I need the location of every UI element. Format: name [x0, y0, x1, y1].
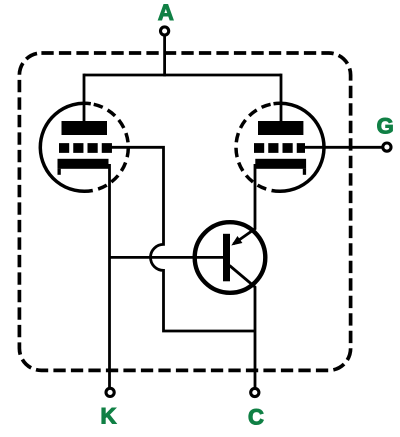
svg-text:G: G [377, 114, 394, 139]
transistor Q1 body circle [195, 222, 266, 293]
tube V1 grid [59, 143, 112, 153]
svg-text:K: K [101, 404, 117, 429]
wire A lead [163, 35, 166, 76]
wire anode bus [84, 74, 281, 77]
tube V2 envelope solid arc [272, 103, 324, 191]
transistor Q1 base bar [223, 234, 230, 281]
wire left plate lead [83, 74, 86, 123]
svg-text:A: A [158, 0, 174, 25]
tube V1 envelope solid arc [40, 103, 92, 191]
tube V1 envelope dashed arc [91, 104, 129, 191]
wire cathode1 to K [108, 164, 111, 388]
svg-text:C: C [248, 404, 264, 429]
wire grid1 net with hop [108, 147, 255, 331]
transistor Q1 emitter arrow [231, 236, 242, 246]
tube V1 cathode [58, 159, 109, 169]
tube V2 right section [236, 103, 324, 191]
tube V2 envelope dashed arc [236, 104, 274, 191]
wire right plate lead [280, 74, 283, 123]
tube V1 anode plate [62, 121, 108, 135]
wire cathode2 to emitter [234, 164, 256, 244]
terminal C [251, 388, 259, 396]
tube V2 anode plate [258, 121, 303, 135]
wire collector to C [230, 266, 256, 388]
terminal G [383, 143, 391, 151]
package outline [19, 53, 350, 370]
tube V2 cathode [255, 159, 306, 169]
tube V1 left section [40, 103, 128, 191]
wire G lead [303, 146, 382, 149]
wire base net [110, 256, 224, 259]
tube V2 grid [254, 143, 305, 153]
transistor Q1 [195, 222, 266, 293]
terminal A [161, 27, 169, 35]
terminal K [106, 388, 114, 396]
